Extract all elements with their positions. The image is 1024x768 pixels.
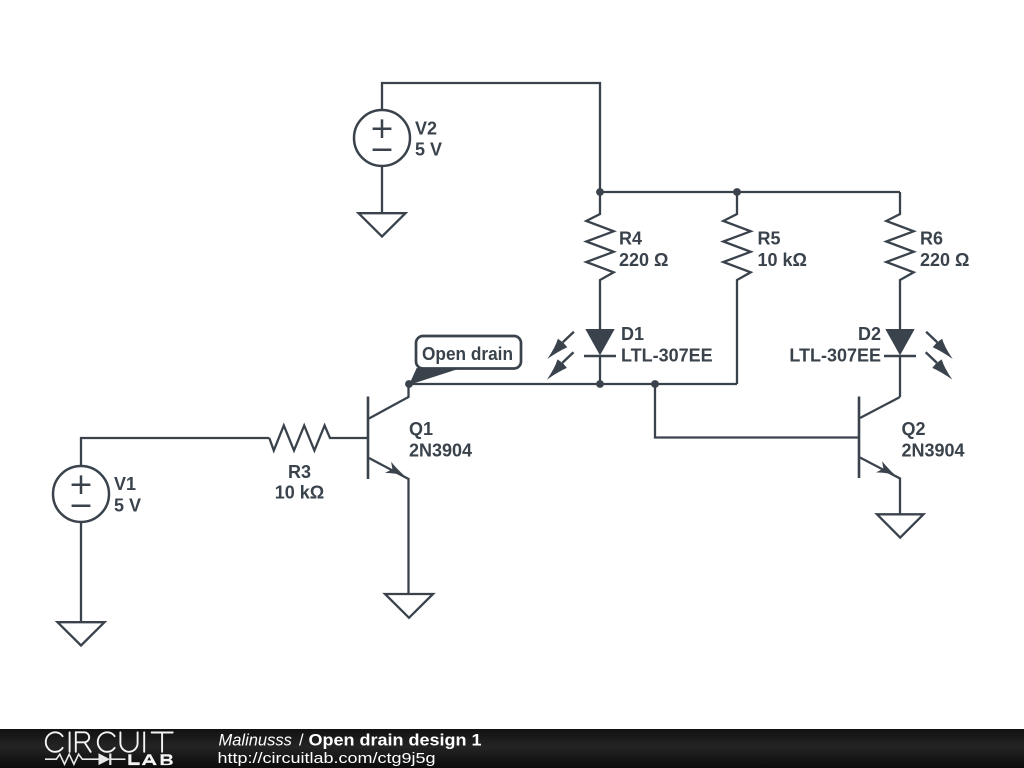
svg-text:LTL-307EE: LTL-307EE <box>621 345 713 365</box>
svg-text:Q1: Q1 <box>409 419 433 439</box>
svg-text:5 V: 5 V <box>114 495 141 515</box>
svg-text:220 Ω: 220 Ω <box>920 250 969 270</box>
svg-text:Malinusss: Malinusss <box>219 732 292 750</box>
svg-text:Open drain: Open drain <box>422 344 513 364</box>
svg-text:D2: D2 <box>858 324 881 344</box>
svg-text:R5: R5 <box>758 228 781 248</box>
svg-text:10 kΩ: 10 kΩ <box>758 250 807 270</box>
svg-text:10 kΩ: 10 kΩ <box>275 483 324 503</box>
svg-text:/: / <box>299 732 304 750</box>
svg-text:2N3904: 2N3904 <box>902 441 965 461</box>
svg-text:5 V: 5 V <box>415 140 442 160</box>
svg-text:D1: D1 <box>621 324 644 344</box>
svg-text:V2: V2 <box>415 118 437 138</box>
svg-text:220 Ω: 220 Ω <box>619 250 668 270</box>
svg-text:R6: R6 <box>920 228 943 248</box>
svg-text:V1: V1 <box>114 474 136 494</box>
svg-text:Open drain design 1: Open drain design 1 <box>309 732 482 750</box>
svg-text:2N3904: 2N3904 <box>409 441 472 461</box>
svg-text:R3: R3 <box>288 462 311 482</box>
svg-text:LTL-307EE: LTL-307EE <box>789 345 881 365</box>
svg-text:Q2: Q2 <box>902 419 926 439</box>
svg-text:http://circuitlab.com/ctg9j5g: http://circuitlab.com/ctg9j5g <box>218 750 436 767</box>
svg-text:R4: R4 <box>619 228 642 248</box>
